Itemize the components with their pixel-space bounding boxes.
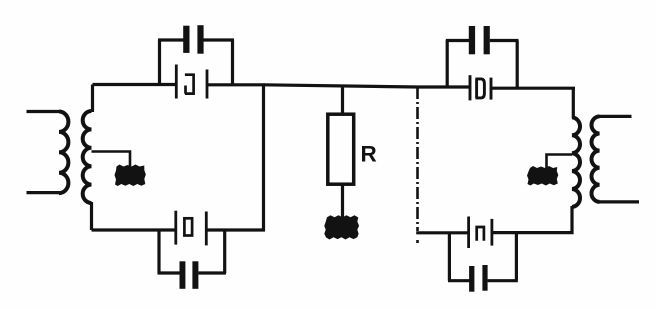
wire dash-dot section divider vertical — [416, 87, 419, 231]
capacitor C3 right bracket wire — [516, 41, 519, 89]
wire dash-dot remnant dot below corner — [416, 240, 419, 243]
wire top bus X3 output to T2 corner — [491, 87, 575, 90]
wire T1 primary bottom lead — [27, 191, 61, 194]
crystal X3 right plate — [490, 78, 493, 100]
wire resistor R top lead — [341, 86, 344, 116]
crystal X3 body rectangle — [475, 79, 484, 98]
wire top bus through X1 output to loop corner — [207, 83, 265, 86]
ground G1 hatched block at T1 tap — [115, 165, 146, 187]
svg-text:R: R — [361, 142, 377, 167]
capacitor C4 left bracket wire — [448, 232, 451, 281]
capacitor C1 right bracket wire — [231, 40, 234, 86]
wire C4 left lead — [448, 279, 470, 282]
capacitor C2 left plate bar — [180, 261, 186, 289]
crystal X1 right plate — [206, 70, 209, 99]
crystal X1 body rectangle — [185, 75, 194, 94]
crystal X3 left plate — [469, 75, 472, 100]
transformer T1 secondary winding — [83, 111, 92, 203]
crystal X4 body rectangle (open bottom) — [477, 227, 484, 241]
wire bottom bus left segment (corner to crystal X2) — [92, 228, 176, 231]
wire T1 primary top lead — [27, 110, 61, 113]
wire C1 left lead — [158, 38, 184, 41]
capacitor C2 left bracket wire — [157, 229, 160, 273]
wire T1 secondary top to top bus corner — [91, 85, 94, 113]
transformer T1 primary winding — [59, 112, 68, 194]
wire C4 right lead — [488, 279, 518, 282]
wire C3 right lead — [490, 39, 519, 42]
wire center top bus (left loop corner to right cell) — [264, 85, 470, 87]
wire resistor R bottom lead — [341, 184, 344, 218]
capacitor C2 right bracket wire — [223, 229, 226, 273]
wire C3 left lead — [446, 39, 470, 42]
wire top bus left segment (corner to crystal X1) — [93, 83, 177, 86]
wire T2 secondary bottom vertical to bottom bus corner — [491, 206, 572, 233]
capacitor C1 right plate bar — [197, 25, 203, 54]
capacitor C1 left bracket wire — [158, 40, 161, 86]
transformer T2 secondary winding — [572, 117, 580, 206]
capacitor C4 left plate bar — [469, 266, 474, 292]
wire T2 primary top lead — [598, 115, 632, 118]
ground G2 hatched block below R — [324, 215, 359, 239]
crystal X4 left plate — [467, 217, 470, 249]
crystal X4 right plate — [490, 219, 493, 246]
wire T1 center tap — [92, 152, 131, 169]
wire bottom bus from X2 output to loop corner — [206, 228, 265, 231]
wire C2 right lead — [198, 271, 226, 274]
crystal X2 left plate — [174, 211, 177, 245]
wire C2 left lead — [158, 271, 181, 274]
crystal X1 left plate — [175, 65, 178, 99]
capacitor C1 left plate bar — [183, 26, 189, 53]
wire T2 secondary top vertical — [572, 88, 575, 118]
crystal X2 right plate — [205, 212, 208, 246]
wire bottom bus right cell (divider corner to crystal X4) — [416, 231, 468, 234]
wire C1 right lead — [203, 38, 234, 41]
transformer T2 primary winding — [592, 116, 600, 201]
resistor R body — [328, 114, 354, 184]
capacitor C3 left bracket wire — [446, 41, 449, 89]
capacitor C4 right bracket wire — [515, 234, 518, 281]
capacitor C3 left plate bar — [469, 26, 475, 54]
wire T2 primary bottom lead — [598, 200, 639, 203]
capacitor C4 right plate bar — [482, 265, 487, 291]
wire left cell right-side loop vertical — [262, 85, 265, 232]
wire T1 secondary bottom to bottom bus corner — [90, 202, 93, 230]
ground G3 hatched block at T2 tap — [527, 166, 558, 186]
crystal X2 body rectangle — [184, 218, 192, 235]
wire T2 center tap — [547, 155, 573, 169]
capacitor C3 right plate bar — [484, 26, 490, 54]
capacitor C2 right plate bar — [192, 261, 198, 289]
